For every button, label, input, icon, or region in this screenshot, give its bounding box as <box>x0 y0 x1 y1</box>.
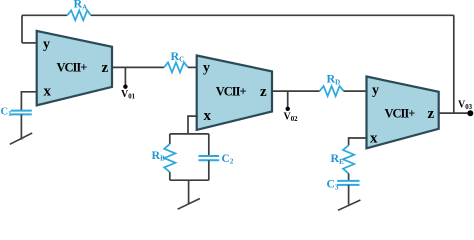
wire y input U1 <box>22 42 38 44</box>
svg-text:V03: V03 <box>458 100 473 112</box>
resistor RA <box>67 10 91 20</box>
wire z2 to RD <box>272 90 320 92</box>
svg-text:C2: C2 <box>222 153 234 166</box>
wire box to ground <box>188 180 190 203</box>
wire z3 output <box>439 112 471 114</box>
resistor RB <box>164 144 175 172</box>
capacitor C2 <box>199 156 220 160</box>
op-amp U1 VCII+ <box>37 31 112 105</box>
wire C2 branch top <box>208 134 210 156</box>
svg-text:RC: RC <box>171 49 185 64</box>
wire x input U1 <box>21 92 37 110</box>
wire x input U3 <box>349 138 368 145</box>
capacitor C1 <box>11 111 32 115</box>
ground 2 <box>178 199 200 210</box>
svg-text:VCII+: VCII+ <box>385 106 416 120</box>
node V01 <box>124 67 126 85</box>
svg-text:x: x <box>44 84 52 100</box>
svg-text:y: y <box>203 61 210 76</box>
wire C3 to ground <box>348 185 350 205</box>
wire feedback right vertical <box>453 15 455 113</box>
svg-text:y: y <box>43 37 50 52</box>
wire x input U2 <box>188 116 198 133</box>
ground 1 <box>10 133 32 144</box>
op-amp U3 VCII+ <box>367 77 439 149</box>
wire RD to U3 <box>344 90 368 92</box>
ground 3 <box>338 200 360 210</box>
svg-text:VCII+: VCII+ <box>57 60 88 74</box>
wire top feedback left segment <box>22 14 67 16</box>
resistor RE <box>343 145 354 173</box>
node V03 <box>467 110 473 116</box>
wire RB branch bottom <box>169 172 171 180</box>
wire parallel box top <box>170 133 209 135</box>
svg-text:RD: RD <box>327 72 341 87</box>
resistor RD <box>320 86 344 96</box>
svg-text:C1: C1 <box>1 107 13 119</box>
svg-text:RE: RE <box>331 151 345 166</box>
wire RB branch top <box>169 134 171 144</box>
capacitor C3 <box>337 181 359 185</box>
wire z1 to RC <box>112 66 164 68</box>
svg-text:y: y <box>372 83 379 98</box>
svg-text:VCII+: VCII+ <box>216 84 247 98</box>
op-amp U2 VCII+ <box>197 56 272 130</box>
svg-text:RA: RA <box>74 0 88 11</box>
wire C2 branch bottom <box>208 160 210 180</box>
svg-text:z: z <box>102 60 109 76</box>
node V02 <box>287 91 289 107</box>
svg-text:C3: C3 <box>327 179 339 192</box>
wire top feedback right segment <box>91 14 454 16</box>
svg-text:x: x <box>370 131 378 147</box>
wire parallel box bottom <box>170 179 209 181</box>
wire RE to C3 <box>348 173 350 181</box>
svg-text:RB: RB <box>152 148 166 163</box>
resistor RC <box>164 62 188 72</box>
wire RC to U2 <box>188 66 198 68</box>
svg-text:z: z <box>428 106 435 122</box>
wire feedback left vertical <box>21 15 23 43</box>
svg-text:V01: V01 <box>121 89 136 101</box>
svg-text:V02: V02 <box>284 112 299 124</box>
svg-text:x: x <box>204 108 212 124</box>
svg-text:z: z <box>260 84 267 100</box>
wire C1 to ground <box>20 114 22 139</box>
